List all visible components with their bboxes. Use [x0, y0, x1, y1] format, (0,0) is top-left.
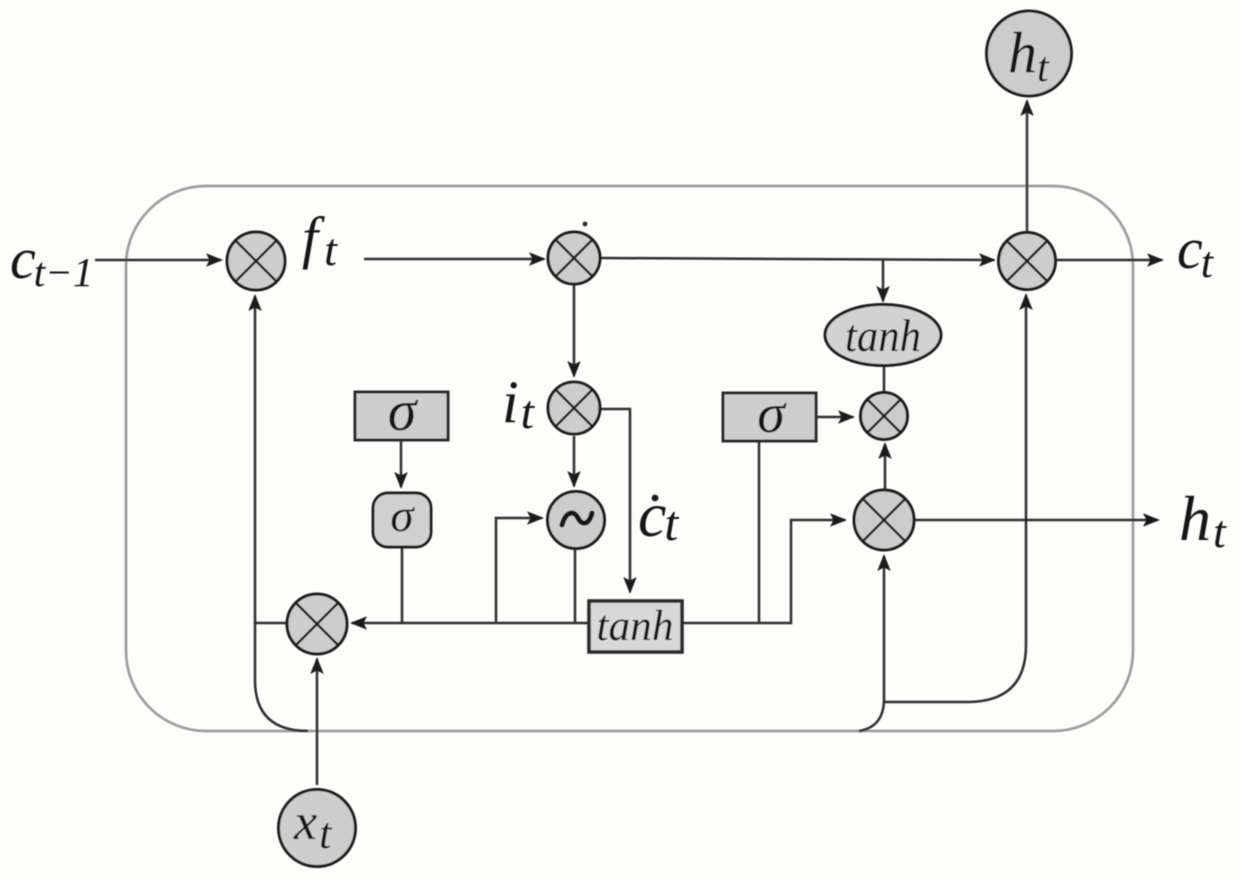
multiply node right (c-path output)	[999, 233, 1056, 290]
stray dot above middle multiply	[583, 222, 588, 227]
wire recurrent junction up into h-gate multiply	[883, 556, 886, 703]
wire x(t) input up into bottom-left multiply	[316, 659, 319, 785]
svg-text:σ: σ	[757, 383, 787, 445]
sigma rounded box	[373, 493, 431, 547]
multiply node h-gate	[854, 490, 914, 550]
wire c(t-1) input arrow	[95, 259, 221, 262]
svg-text:ht: ht	[1179, 483, 1227, 557]
wire sigma box down arrow to rounded sigma	[400, 441, 403, 487]
wire middle multiply to right multiply	[600, 258, 994, 260]
node x(t) input circle	[279, 790, 356, 867]
wire right multiply up to h(t) node	[1026, 101, 1029, 233]
tanh ellipse	[825, 305, 941, 366]
sigma box right	[723, 393, 816, 441]
wire middle multiply down into i-gate	[573, 284, 576, 376]
wire i-gate right then down into tanh box	[600, 409, 630, 592]
wire h(t) output arrow	[915, 519, 1158, 522]
multiply node bottom-left input gate	[287, 594, 347, 654]
wire tanh box output right and up into h-gate multiply	[683, 520, 845, 623]
wire right sigma box arrow into small multiply	[817, 416, 853, 419]
wire c(t) output arrow	[1055, 259, 1162, 262]
wire rounded sigma down to horizontal wire	[401, 547, 404, 623]
squash node (~)	[548, 492, 605, 549]
svg-text:it: it	[502, 369, 536, 439]
multiply node middle (c-path)	[548, 232, 600, 284]
multiply node f-gate	[227, 232, 285, 290]
wire tanh box to bottom-left multiply (arrow left)	[352, 622, 588, 625]
wire squash bottom to horizontal wire	[574, 548, 577, 623]
node h(t) output circle	[987, 11, 1072, 96]
wire left vertical curve to bottom boundary	[255, 622, 308, 731]
svg-text:tanh: tanh	[845, 311, 921, 361]
svg-text:ft: ft	[302, 205, 338, 275]
cell boundary (rounded rectangle)	[126, 186, 1133, 731]
wire left junction to bottom-left multiply	[255, 622, 288, 625]
wire drop to tanh ellipse	[882, 259, 885, 301]
svg-text:ct: ct	[638, 479, 679, 551]
svg-text:ct−1: ct−1	[10, 226, 93, 295]
wire recurrent from boundary up to junction	[859, 701, 884, 731]
wire right sigma box down to tanh output wire	[758, 441, 761, 623]
wire f-gate output to middle multiply	[364, 258, 544, 261]
sigma box left	[355, 392, 448, 440]
multiply node small (output gate)	[861, 393, 908, 440]
svg-text:tanh: tanh	[597, 603, 674, 650]
svg-text:ct: ct	[1177, 216, 1215, 287]
svg-text:σ: σ	[388, 378, 419, 443]
wire up-branch into squash input	[496, 518, 542, 623]
svg-text:σ: σ	[390, 490, 415, 542]
squash tilde glyph	[562, 513, 592, 525]
wire i-gate down into squash	[573, 436, 576, 486]
wire h-gate multiply up into small multiply	[884, 444, 887, 490]
tanh box	[589, 601, 682, 652]
wire tanh ellipse down to small multiply	[883, 366, 886, 393]
multiply node i-gate	[548, 382, 600, 434]
wire left vertical up into f-gate	[254, 296, 257, 624]
wire recurrent right and up into right multiply	[884, 295, 1026, 702]
dot above c-tilde	[652, 495, 659, 502]
